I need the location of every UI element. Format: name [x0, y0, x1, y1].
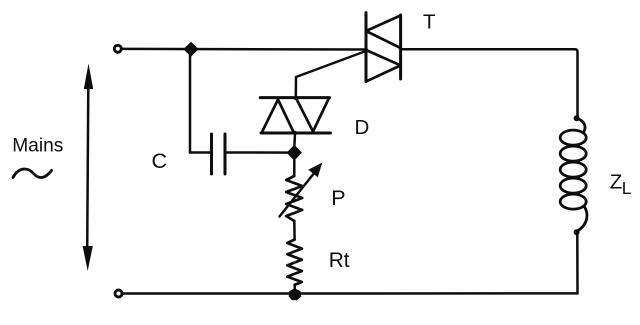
inductor ZL loop 1 [560, 130, 586, 145]
junction blob gate at triac [364, 48, 369, 53]
wire coil bottom to bottom-right corner [576, 233, 579, 293]
inductor ZL loop 2 [560, 146, 586, 161]
wire capacitor to node [225, 151, 294, 154]
wire C branch horizontal to left plate [190, 151, 211, 154]
inductor ZL loop 4 [560, 178, 586, 193]
wire triac gate diagonal [296, 51, 366, 77]
node junction top (C tap) [183, 42, 198, 57]
node junction mid (C / diac / P) [287, 145, 302, 161]
triac T lower triangle [366, 50, 401, 82]
junction blob diac top [294, 96, 298, 100]
triac T right bar [399, 15, 402, 79]
wire Rt to bottom node [293, 285, 296, 292]
wire triac MT1 to top-right corner [401, 49, 578, 117]
potentiometer arrow head [308, 163, 322, 178]
node dot coil top [574, 115, 580, 121]
terminal bottom-left [115, 290, 122, 297]
svg-text:L: L [622, 178, 632, 198]
potentiometer arrow shaft [280, 172, 316, 217]
node dot coil bottom [574, 229, 580, 235]
diac D left triangle [262, 100, 294, 133]
node junction bottom [289, 288, 302, 300]
svg-text:Rt: Rt [329, 249, 350, 272]
svg-text:T: T [423, 11, 436, 34]
junction blob diac bottom [293, 131, 297, 135]
wire C branch vertical [189, 50, 192, 153]
sine symbol [13, 169, 52, 178]
mains arrow head up [84, 64, 93, 90]
potentiometer P zigzag [286, 176, 302, 221]
triac T left bar [365, 13, 368, 82]
terminal top-left [114, 45, 121, 52]
svg-text:D: D [355, 116, 370, 139]
mains arrow head down [83, 246, 93, 271]
thermistor Rt zigzag [287, 240, 302, 285]
svg-text:C: C [152, 149, 168, 173]
diac D bottom bar [261, 132, 330, 135]
diac D right triangle [296, 98, 329, 132]
capacitor C plates [212, 134, 226, 174]
triac T upper triangle [366, 16, 401, 49]
wire diac to node [293, 133, 296, 146]
svg-text:P: P [331, 186, 345, 210]
svg-text:Z: Z [610, 171, 623, 194]
inductor ZL loop 3 [560, 162, 586, 177]
svg-text:Mains: Mains [12, 135, 63, 156]
inductor ZL loop 5 [560, 194, 586, 209]
wire node to potentiometer [293, 160, 296, 176]
mains double arrow shaft [87, 86, 88, 249]
wire gate vertical to diac [295, 77, 298, 98]
wire top from terminal to triac MT2 [122, 48, 366, 51]
inductor ZL coil exit hook [577, 206, 587, 232]
wire P to Rt [293, 221, 296, 240]
wire bottom [123, 292, 578, 295]
diac D top bar [260, 96, 329, 99]
inductor ZL coil entry hook [577, 119, 585, 132]
